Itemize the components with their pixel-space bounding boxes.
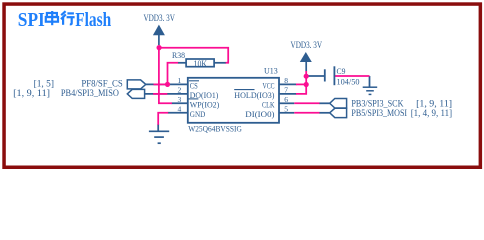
port PF8/SF_CS: [127, 80, 146, 89]
wire VDD right stem (magenta): [305, 71, 307, 84]
svg-text:W25Q64BVSSIG: W25Q64BVSSIG: [188, 123, 242, 133]
svg-text:PB5/SPI3_MOSI: PB5/SPI3_MOSI: [351, 109, 407, 119]
port PB5/SPI3_MOSI: [330, 108, 347, 117]
port PB3/SPI3_SCK: [330, 99, 347, 109]
svg-text:U13: U13: [264, 65, 278, 75]
pin name DO(IO1) with underline: [188, 91, 218, 100]
svg-text:WP(IO2): WP(IO2): [190, 100, 220, 109]
wire pin3 WP net (blue): [172, 102, 188, 104]
wire VCC to C9 (blue): [307, 75, 325, 77]
junction node VDD left: [157, 45, 162, 50]
wire CLK mid (magenta): [294, 102, 319, 104]
svg-text:R38: R38: [172, 50, 185, 60]
svg-text:VCC: VCC: [263, 81, 275, 90]
wire pin1 CS net (blue): [146, 83, 188, 85]
svg-text:8: 8: [284, 76, 288, 85]
svg-text:4: 4: [178, 105, 182, 114]
svg-text:2: 2: [178, 86, 182, 95]
title hanzi 行: [61, 11, 75, 25]
svg-text:5: 5: [284, 105, 288, 114]
svg-text:VDD3. 3V: VDD3. 3V: [291, 41, 323, 51]
svg-text:SPI: SPI: [18, 9, 45, 31]
title hanzi 串: [46, 11, 58, 25]
svg-text:1: 1: [178, 76, 182, 85]
svg-text:PB3/SPI3_SCK: PB3/SPI3_SCK: [351, 99, 403, 109]
svg-text:DI(IO0): DI(IO0): [245, 110, 275, 119]
svg-text:C9: C9: [337, 66, 346, 76]
svg-text:6: 6: [284, 95, 288, 104]
svg-text:Flash: Flash: [75, 9, 111, 31]
wire pin6 CLK stub (blue): [279, 102, 294, 104]
pin name CS with overline: [189, 81, 199, 91]
pin name HOLD(IO3) with overline: [234, 90, 275, 100]
title SPI串行Flash: [18, 9, 111, 31]
ground (main): [149, 131, 169, 143]
svg-text:CLK: CLK: [262, 100, 275, 109]
wire C9 to ground (blue vertical): [369, 76, 371, 87]
wire CS overlay (magenta): [154, 83, 170, 85]
svg-text:PF8/SF_CS: PF8/SF_CS: [81, 78, 122, 88]
sheet border frame: [4, 4, 480, 167]
wire VCC overlay (magenta): [296, 83, 306, 85]
svg-text:GND: GND: [190, 110, 206, 119]
wire vertical VDD to WP (magenta): [159, 48, 172, 104]
power VDD3.3V (left): [143, 14, 175, 45]
resistor lead left (blue): [178, 62, 186, 64]
wire pin8 VCC stub (blue): [279, 83, 297, 85]
wire pin4 GND net (blue): [168, 112, 188, 114]
resistor R38: [172, 50, 214, 69]
wire HOLD to VDD (magenta): [296, 84, 306, 94]
svg-text:104/50: 104/50: [337, 76, 360, 86]
port PB4/SPI3_MISO: [127, 89, 144, 98]
svg-text:PB4/SPI3_MISO: PB4/SPI3_MISO: [61, 88, 119, 98]
wire GND stem (blue): [157, 124, 159, 131]
op IC U13 W25Q64BVSSIG body: [188, 65, 279, 133]
svg-text:7: 7: [284, 86, 288, 95]
resistor lead right (blue): [214, 62, 226, 64]
power VDD3.3V (right): [291, 41, 323, 71]
svg-text:[1, 4, 9, 11]: [1, 4, 9, 11]: [411, 109, 452, 119]
wire C9 to ground horizontal (magenta): [334, 75, 369, 77]
junction node CS pull-up: [165, 82, 170, 87]
svg-text:VDD3. 3V: VDD3. 3V: [143, 14, 175, 24]
junction node C9 branch: [304, 74, 309, 79]
wire MOSI mid (magenta): [294, 112, 319, 114]
junction node VCC: [304, 82, 309, 87]
svg-text:3: 3: [178, 95, 182, 104]
wire MISO overlay (magenta): [153, 93, 167, 95]
wire SCK near port (blue): [319, 102, 330, 104]
capacitor C9: [325, 66, 360, 86]
svg-text:CS: CS: [190, 81, 198, 90]
svg-text:[1, 9, 11]: [1, 9, 11]: [416, 99, 452, 109]
wire pin2 MISO net (blue): [145, 93, 188, 95]
svg-text:10K: 10K: [194, 59, 208, 69]
wire GND run (magenta): [158, 113, 168, 125]
wire VDD top run to R38 (magenta): [159, 48, 228, 63]
svg-text:HOLD(IO3): HOLD(IO3): [234, 91, 275, 100]
wire MOSI near port (blue): [319, 112, 330, 114]
wire pin5 DI stub (blue): [279, 112, 294, 114]
svg-text:[1, 5]: [1, 5]: [34, 78, 54, 88]
wire R38 to CS (magenta): [168, 63, 179, 85]
wire pin7 HOLD stub (blue): [279, 93, 297, 95]
ground (C9): [363, 87, 378, 94]
svg-text:[1, 9, 11]: [1, 9, 11]: [13, 88, 50, 98]
